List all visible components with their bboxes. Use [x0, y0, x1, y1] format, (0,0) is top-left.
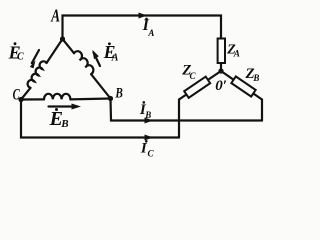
svg-text:A: A: [50, 6, 60, 25]
svg-text:B: B: [115, 84, 123, 101]
svg-text:A: A: [147, 28, 154, 38]
svg-text:C: C: [190, 71, 197, 81]
svg-text:C: C: [13, 85, 21, 103]
svg-text:B: B: [144, 110, 151, 120]
svg-text:A: A: [233, 49, 240, 59]
svg-text:B: B: [60, 118, 68, 130]
svg-text:A: A: [111, 52, 119, 63]
svg-text:C: C: [148, 149, 155, 159]
svg-text:0′: 0′: [215, 78, 227, 94]
svg-text:C: C: [17, 51, 24, 62]
svg-text:B: B: [252, 73, 259, 83]
